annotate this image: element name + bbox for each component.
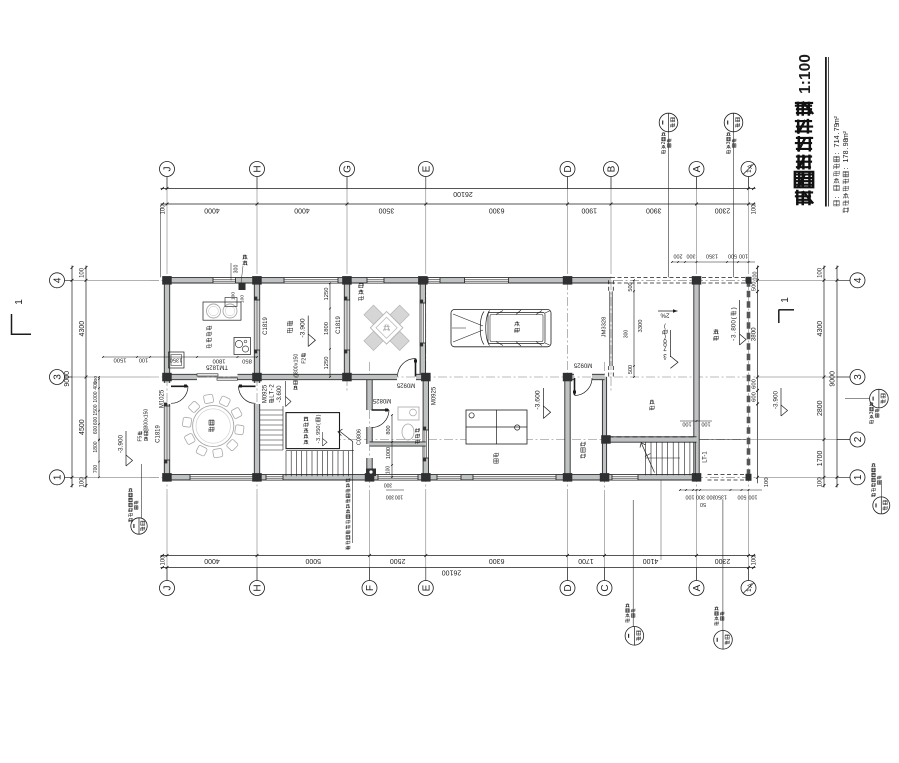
svg-text:H: H <box>253 584 264 591</box>
column Eg4 <box>418 276 428 285</box>
wall F mid <box>367 427 372 444</box>
svg-text:A: A <box>747 164 754 169</box>
svg-text:4000: 4000 <box>204 557 220 564</box>
svg-text:JM3328: JM3328 <box>601 317 607 338</box>
top wall dashed B-1/A <box>611 277 749 279</box>
ext line courtyard note leader <box>660 480 662 560</box>
window toolroom bottom <box>612 475 638 480</box>
window mahjong top <box>367 278 384 283</box>
grid centerline D <box>567 177 569 265</box>
svg-text:5: 5 <box>138 435 144 438</box>
window C1819 dining left <box>164 406 169 460</box>
lift pit level <box>316 414 322 443</box>
column Gg3 <box>342 373 352 382</box>
lift pit box <box>286 413 340 449</box>
svg-text:4000: 4000 <box>294 207 310 214</box>
column Fg1 <box>365 473 375 482</box>
toolroom label <box>581 442 586 459</box>
right sub dimension line <box>757 266 759 484</box>
flue block top <box>239 284 246 291</box>
dining room label <box>209 420 214 432</box>
svg-text:100: 100 <box>240 295 246 303</box>
window garage top a <box>428 278 440 283</box>
dining chairs <box>235 425 245 435</box>
grid centerline E <box>425 177 427 265</box>
grid bubble 1 left <box>50 470 65 485</box>
svg-text:1700: 1700 <box>817 451 824 467</box>
svg-text:): ) <box>316 414 322 416</box>
svg-text::: : <box>832 197 841 199</box>
column Cg1 <box>600 473 610 482</box>
courtyard F2 note <box>301 353 307 364</box>
grid bubble 1/A top <box>741 162 756 177</box>
svg-text:1700: 1700 <box>578 557 594 564</box>
svg-text:2300: 2300 <box>715 557 731 564</box>
left overall dimension line <box>71 266 73 488</box>
svg-text:M0925: M0925 <box>573 361 592 367</box>
svg-text:100: 100 <box>752 555 758 566</box>
grid bubble 1/A bottom <box>741 581 756 596</box>
svg-text:D: D <box>563 584 574 591</box>
grid bubble D top <box>560 162 575 177</box>
wall grid3 G-E mahjong <box>347 374 397 379</box>
svg-text:1250: 1250 <box>324 288 330 301</box>
rolling door JM3328 <box>609 291 611 366</box>
wall H upper <box>254 280 259 377</box>
svg-text:300: 300 <box>707 494 716 500</box>
lift pit level triangle <box>322 432 324 446</box>
svg-text:100: 100 <box>739 253 748 259</box>
svg-text:M0925: M0925 <box>396 381 415 387</box>
grid bubble 3 right <box>850 370 865 385</box>
grid bubble 2 right <box>850 432 865 447</box>
grid centerline G <box>346 177 348 265</box>
right segment dimension line <box>823 266 825 488</box>
svg-text:4500: 4500 <box>79 419 86 435</box>
A wall dims <box>680 420 712 422</box>
svg-text:0: 0 <box>144 409 150 412</box>
grid bubble F bottom <box>362 581 377 596</box>
section mark 1 right <box>779 309 795 311</box>
svg-text:6300: 6300 <box>489 207 505 214</box>
left exterior wall J lower <box>164 404 169 481</box>
flue block F-E bottom <box>366 469 376 477</box>
svg-text:3: 3 <box>316 438 322 441</box>
svg-text:600: 600 <box>93 426 99 435</box>
svg-text:2300: 2300 <box>715 207 731 214</box>
svg-text:1000: 1000 <box>386 447 392 459</box>
section mark 1 left <box>11 314 13 335</box>
grid bubble D bottom <box>560 581 575 596</box>
ext line top left <box>160 208 162 277</box>
svg-text:1: 1 <box>780 297 791 303</box>
svg-text::: : <box>832 153 841 155</box>
svg-text:100: 100 <box>701 421 710 427</box>
grid centerline J <box>166 177 168 265</box>
note shang LT-2 <box>269 384 275 403</box>
note line 1 <box>832 115 841 205</box>
stair LT-1 treads <box>645 442 647 475</box>
kitchen shaft <box>169 352 185 368</box>
title text jiakongceng pingmiantu <box>795 190 813 205</box>
svg-text:M0925: M0925 <box>432 386 438 405</box>
svg-text:E: E <box>421 584 432 591</box>
svg-text:F: F <box>365 585 376 591</box>
window stair bottom <box>266 475 283 480</box>
svg-text:850: 850 <box>242 358 252 364</box>
wall grid3 D-C toolroom <box>568 374 575 379</box>
detail marker bottom A <box>714 631 733 650</box>
svg-text:1: 1 <box>53 474 64 480</box>
svg-text:800: 800 <box>386 425 392 434</box>
svg-text:G: G <box>343 165 354 173</box>
svg-text:B: B <box>607 165 618 172</box>
svg-text:100: 100 <box>386 466 392 475</box>
grid bubble J bottom <box>160 581 175 596</box>
svg-text:1350: 1350 <box>715 494 727 500</box>
svg-text:500: 500 <box>628 365 634 374</box>
svg-text:300: 300 <box>233 265 239 274</box>
svg-text:3500: 3500 <box>379 207 395 214</box>
grid centerline 3 <box>64 376 150 378</box>
wall grid3 J-H kitchen <box>167 374 197 379</box>
svg-text:-3.900: -3.900 <box>299 318 306 337</box>
svg-text:100: 100 <box>682 421 691 427</box>
svg-text:3: 3 <box>731 334 738 338</box>
wall A <box>694 280 699 477</box>
grid bubble B top <box>604 162 619 177</box>
wall toilet south <box>370 442 426 446</box>
svg-text:4300: 4300 <box>79 321 86 337</box>
svg-text:600: 600 <box>751 379 757 389</box>
svg-text:): ) <box>731 307 738 309</box>
svg-text:700: 700 <box>93 465 99 474</box>
grid bubble J top <box>160 162 175 177</box>
grid centerline F <box>369 495 371 581</box>
svg-text:300: 300 <box>384 481 393 487</box>
grid bubble A top <box>689 162 704 177</box>
svg-text:3: 3 <box>869 411 875 414</box>
leftout drain note <box>144 409 150 441</box>
svg-text:9000: 9000 <box>829 371 836 387</box>
svg-text:100: 100 <box>764 478 770 488</box>
svg-text:400: 400 <box>93 381 99 390</box>
svg-text:H: H <box>253 165 264 172</box>
svg-text:200: 200 <box>674 253 683 259</box>
svg-text:100: 100 <box>231 292 237 300</box>
door TM1825 <box>197 374 218 376</box>
detail marker right mid <box>870 389 889 408</box>
svg-text:4: 4 <box>853 277 864 283</box>
svg-text:-3.900: -3.900 <box>773 390 780 409</box>
top segment dimension line <box>161 203 756 205</box>
bottom exterior wall J-A <box>163 475 697 480</box>
stair LT-1 arrow <box>642 444 655 473</box>
svg-text:3800: 3800 <box>751 327 758 341</box>
left exterior wall J upper <box>164 276 169 383</box>
door M0925 mahjong <box>415 359 417 377</box>
bottom wall dashed A-1/A <box>708 474 749 476</box>
grid centerline B <box>610 177 612 265</box>
window billiards bottom <box>437 475 461 480</box>
svg-text:2: 2 <box>853 436 864 442</box>
toilet label <box>415 428 419 444</box>
top exterior wall J-B <box>163 278 611 283</box>
grid bubble C bottom <box>597 581 612 596</box>
svg-text:1800: 1800 <box>93 441 99 452</box>
stair note leader <box>352 475 354 544</box>
car <box>451 310 551 347</box>
detail marker bottom left <box>131 518 147 534</box>
column Ag1 <box>692 473 702 482</box>
svg-text:1:100: 1:100 <box>797 54 814 94</box>
right overall dimension line <box>836 266 838 488</box>
mahjong room label <box>359 283 364 301</box>
column Gg4 <box>342 276 352 285</box>
svg-text:100: 100 <box>160 555 166 566</box>
mahjong table <box>351 292 423 364</box>
grid centerline 1/A <box>748 177 750 265</box>
window C1819 courtyard-H <box>254 300 259 350</box>
svg-text:A: A <box>692 165 703 172</box>
window garage top b <box>465 278 509 283</box>
stair LT-2 lower flight treads <box>285 451 287 477</box>
bottom segment dimension line <box>161 555 756 557</box>
svg-text:4: 4 <box>53 277 64 283</box>
svg-text:100: 100 <box>686 494 695 500</box>
svg-text:300: 300 <box>386 493 395 499</box>
svg-text:600: 600 <box>751 392 757 402</box>
svg-text:26100: 26100 <box>453 190 473 197</box>
svg-text:500: 500 <box>728 253 737 259</box>
column AAg4 <box>746 277 752 284</box>
window dining bottom <box>190 475 253 480</box>
grid bubble 4 right <box>850 273 865 288</box>
svg-text:5000: 5000 <box>305 557 321 564</box>
svg-text:D: D <box>563 165 574 172</box>
svg-text:4: 4 <box>832 135 841 139</box>
door M0925 dining <box>239 385 256 387</box>
detail marker right bottom <box>873 497 890 514</box>
svg-text:2: 2 <box>301 358 307 361</box>
grid centerline 2 <box>758 439 850 441</box>
leftout dim line <box>98 377 100 477</box>
svg-text:1500: 1500 <box>93 404 99 415</box>
stair LT-2 upper flight treads <box>260 409 283 411</box>
column AAg1 <box>746 474 752 481</box>
column Jg3 <box>162 373 172 382</box>
door M1025 <box>171 385 188 387</box>
wall B dashed upper <box>608 280 610 291</box>
svg-text:2%: 2% <box>660 311 669 318</box>
svg-text:A: A <box>747 583 754 588</box>
courtyard label <box>287 321 292 333</box>
svg-text:1: 1 <box>853 474 864 480</box>
svg-text:500: 500 <box>751 281 757 291</box>
grid bubble 4 left <box>50 273 65 288</box>
garage dim line <box>633 280 635 377</box>
svg-text:1350: 1350 <box>170 357 183 363</box>
kitchen counter <box>203 302 241 320</box>
svg-text:C1819: C1819 <box>263 317 269 335</box>
svg-text:E: E <box>421 165 432 172</box>
svg-text:3: 3 <box>726 141 732 144</box>
svg-text:300: 300 <box>696 494 705 500</box>
svg-text:.: . <box>731 331 738 333</box>
grid centerline A <box>696 177 698 265</box>
svg-text:3: 3 <box>853 374 864 380</box>
svg-text:100: 100 <box>160 204 166 215</box>
grid bubble H bottom <box>250 581 265 596</box>
column Jg4 <box>162 276 172 285</box>
stair LT-1 mid rail <box>646 457 681 459</box>
detail marker top A <box>659 113 678 132</box>
svg-text:2800: 2800 <box>817 400 824 416</box>
svg-text:): ) <box>664 323 666 330</box>
svg-text:1500: 1500 <box>114 357 127 363</box>
toilet dim line <box>391 415 393 477</box>
lift pit label <box>304 417 308 445</box>
window courtyard top <box>284 278 338 283</box>
grid centerline 1 <box>64 476 150 478</box>
grid bubble 3 left <box>50 370 65 385</box>
grid bubble E bottom <box>418 581 433 596</box>
grid bubble E top <box>418 162 433 177</box>
svg-text:1800: 1800 <box>213 358 226 364</box>
svg-text:C1819: C1819 <box>336 316 342 334</box>
svg-text:100: 100 <box>818 477 824 488</box>
svg-text:8: 8 <box>841 150 850 154</box>
svg-text:J: J <box>163 167 174 172</box>
wall G <box>344 280 349 377</box>
billiards label <box>494 453 499 464</box>
svg-text:6300: 6300 <box>489 557 505 564</box>
wall 1/A dashed <box>747 280 751 477</box>
grid bubble 1 right <box>850 470 865 485</box>
top overall dimension line <box>161 188 756 190</box>
wall B dashed lower <box>608 366 610 377</box>
wall E lower <box>423 377 428 477</box>
svg-text:100: 100 <box>80 267 86 278</box>
ramp level -3.700 <box>663 323 668 363</box>
svg-text:3300: 3300 <box>638 320 644 333</box>
svg-text:100: 100 <box>818 267 824 278</box>
grid centerline C <box>604 495 606 581</box>
column Dg3 <box>563 373 573 382</box>
wall E upper <box>420 280 425 377</box>
window billiards bottom b <box>473 475 556 480</box>
svg-text:100: 100 <box>752 204 758 215</box>
column Dg4 <box>563 276 573 285</box>
svg-text:100: 100 <box>80 477 86 488</box>
svg-text:100: 100 <box>752 272 758 281</box>
wall F upper <box>367 377 372 410</box>
flue tiny label <box>243 255 248 260</box>
kitchen sink <box>234 338 251 355</box>
svg-text:A: A <box>692 584 703 591</box>
svg-text:1250: 1250 <box>324 357 330 370</box>
svg-text::: : <box>841 168 850 170</box>
svg-text:1350: 1350 <box>706 253 718 259</box>
svg-text:0: 0 <box>293 354 299 357</box>
svg-text:J: J <box>163 586 174 591</box>
svg-text:4000: 4000 <box>204 207 220 214</box>
svg-text:100: 100 <box>139 357 148 363</box>
column Hg1 <box>252 473 262 482</box>
grid centerline H <box>256 177 258 265</box>
svg-text:-3.600: -3.600 <box>277 385 283 403</box>
dining table <box>193 405 234 446</box>
column Jg1 <box>162 473 172 482</box>
note line 2 <box>841 130 850 212</box>
svg-text:.: . <box>841 147 850 149</box>
column Hg3 <box>252 373 262 382</box>
svg-text:4300: 4300 <box>817 321 824 337</box>
svg-text:.: . <box>832 132 841 134</box>
kitchen dim line <box>103 356 257 358</box>
svg-text:1900: 1900 <box>581 207 597 214</box>
wall H lower b <box>254 404 259 477</box>
window C1819 kitchen top <box>213 278 236 283</box>
window E lower <box>423 430 428 458</box>
svg-text:3: 3 <box>53 374 64 380</box>
bottomright dim line <box>680 489 762 491</box>
svg-text:2500: 2500 <box>390 557 406 564</box>
wall C <box>602 377 606 477</box>
lane level -3.800 <box>731 307 738 341</box>
svg-text:600: 600 <box>93 417 99 426</box>
stair note text <box>346 478 350 550</box>
kitchen room label <box>207 326 212 349</box>
svg-text:-: - <box>731 339 738 341</box>
svg-text:C: C <box>600 584 611 591</box>
bottom overall dimension line <box>161 567 756 569</box>
wall grid3 H-G courtyard <box>257 374 347 379</box>
column Eg1 <box>421 473 431 482</box>
svg-text:1000: 1000 <box>93 391 99 402</box>
column Ag4 <box>692 276 702 285</box>
garage label <box>515 321 520 332</box>
svg-text:(: ( <box>316 423 322 425</box>
svg-text:300: 300 <box>687 253 696 259</box>
svg-text:100: 100 <box>395 493 404 499</box>
svg-text:M0825: M0825 <box>372 397 391 403</box>
svg-text:300: 300 <box>624 330 630 339</box>
svg-text:0: 0 <box>316 426 322 429</box>
lane label <box>714 329 719 340</box>
window C1819 mahjong-E <box>420 303 425 343</box>
column Eg3 <box>421 373 431 382</box>
wall F lower <box>367 458 372 477</box>
window toilet bottom <box>378 475 418 480</box>
grid centerline 4 <box>64 279 150 281</box>
left segment dimension line <box>85 266 87 488</box>
column Hg4 <box>252 276 262 285</box>
svg-text:C1819: C1819 <box>156 425 162 443</box>
grid bubble A bottom <box>689 581 704 596</box>
courtyard dim line <box>329 283 331 377</box>
door M0825 <box>372 409 390 411</box>
svg-text:LT-1: LT-1 <box>703 451 709 463</box>
column Cg2 <box>601 435 611 444</box>
svg-text:4100: 4100 <box>643 557 659 564</box>
svg-text:1800: 1800 <box>324 322 330 335</box>
ramp edge line at grid2 <box>700 439 747 441</box>
topright dim line <box>672 261 755 263</box>
window C1819 courtyard-G <box>344 300 349 350</box>
toilet fixtures <box>398 407 419 420</box>
column Dg1 <box>563 473 573 482</box>
